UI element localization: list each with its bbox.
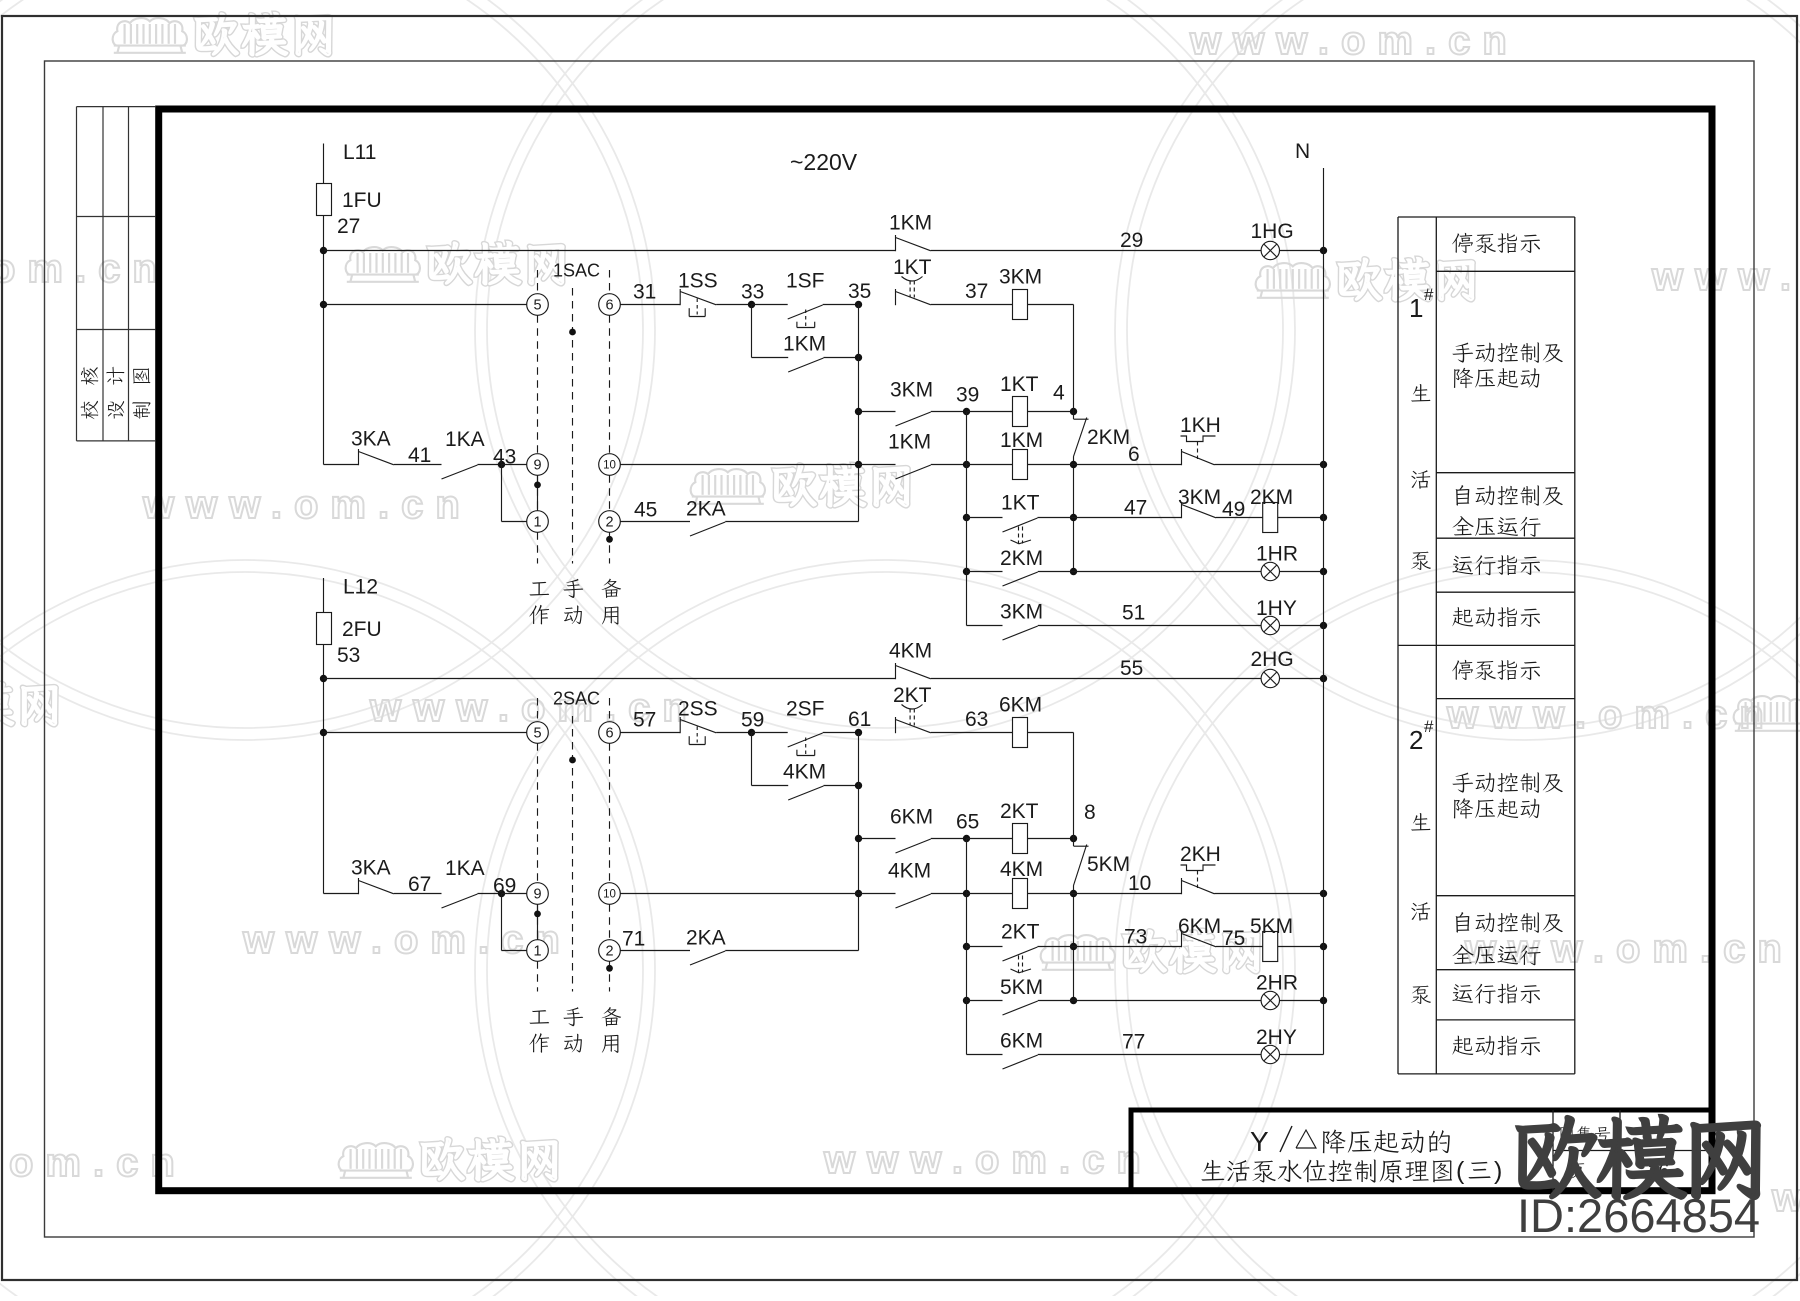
wire 57 — [716, 732, 751, 734]
wire to 4KM contact — [859, 893, 896, 895]
svg-text:67: 67 — [408, 873, 431, 896]
wire vertical to 6KM contact — [967, 1054, 1003, 1056]
svg-text:N: N — [1295, 140, 1310, 163]
svg-text:1KM: 1KM — [783, 333, 826, 356]
wire 2KT to junction — [1038, 946, 1074, 948]
pushbutton 2SS NC stop — [679, 717, 681, 733]
wire vertical to 6KM contact — [859, 838, 896, 840]
svg-text:5KM: 5KM — [1250, 915, 1293, 938]
wire vertical 8 branch down — [1073, 894, 1075, 1001]
svg-text:www.om.cn: www.om.cn — [823, 1138, 1153, 1182]
wire to node 39 — [931, 411, 967, 413]
coil 3KM — [1013, 290, 1028, 320]
selector 1SAC terminal 9 — [527, 454, 549, 476]
wire to coil 1KM — [967, 464, 1013, 466]
contact 2KA NO relay — [690, 951, 725, 965]
wire bus to selector 2SAC contact 5 — [324, 732, 527, 734]
wire 73 — [1074, 946, 1182, 948]
svg-text:1SF: 1SF — [786, 270, 825, 293]
lamp 2HR run indicator — [1261, 991, 1279, 1009]
wire to lamp 2HR — [1038, 1000, 1074, 1002]
wire 65 to coil 2KT — [967, 838, 1013, 840]
wire to 39 vertical — [931, 464, 967, 466]
fuse 2FU — [317, 613, 332, 645]
svg-text:www.om.cn: www.om.cn — [1771, 1176, 1800, 1220]
svg-text:2HG: 2HG — [1251, 648, 1294, 671]
svg-text:2SAC: 2SAC — [553, 689, 600, 709]
svg-text:63: 63 — [965, 708, 988, 731]
svg-text:49: 49 — [1222, 498, 1245, 521]
watermark ID — [1518, 1117, 1600, 1197]
svg-text:31: 31 — [633, 281, 656, 304]
selector 2SAC terminal 5 — [527, 722, 549, 744]
wire vertical to 3KM contact — [967, 625, 1003, 627]
lamp 2HY start indicator — [1261, 1045, 1279, 1063]
wire selector contact 9 to contact 1 — [537, 475, 539, 510]
svg-text:2FU: 2FU — [342, 618, 382, 641]
contact 1KA NO water-level relay — [442, 894, 478, 908]
svg-text:6: 6 — [605, 725, 613, 741]
contact 1KA NO water-level relay — [442, 465, 478, 479]
svg-text:6: 6 — [1128, 443, 1140, 466]
position dot 2SAC line 3 — [606, 965, 613, 972]
svg-text:10: 10 — [603, 460, 616, 472]
wire selector contact 10 to 61 vertical — [620, 893, 858, 895]
wire 51 — [1038, 625, 1261, 627]
svg-text:3KM: 3KM — [1178, 486, 1221, 509]
label position bei-yong (standby) — [602, 1007, 622, 1026]
wire to 4KM hold contact — [752, 785, 789, 787]
selector switch 1SAC position line 3 (dashed) — [609, 270, 611, 294]
junction vertical / lamp 1HR row — [1070, 568, 1077, 575]
wire 2HG to N — [1280, 678, 1324, 680]
contact 3KA NC water-level relay — [358, 878, 360, 894]
svg-text:65: 65 — [956, 811, 979, 834]
svg-text:1SS: 1SS — [678, 270, 718, 293]
lamp 1HG stop indicator — [1261, 241, 1279, 259]
svg-text:1KH: 1KH — [1180, 414, 1221, 437]
junction N bus / coil row — [1320, 461, 1327, 468]
contact 3KA NC water-level relay — [358, 449, 360, 465]
svg-text:2KT: 2KT — [893, 684, 932, 707]
svg-text:2: 2 — [605, 514, 613, 530]
svg-text:2KT: 2KT — [1000, 800, 1039, 823]
svg-text:www.om.cn: www.om.cn — [1446, 693, 1776, 737]
svg-text:4KM: 4KM — [783, 761, 826, 784]
svg-text:3KM: 3KM — [890, 379, 933, 402]
wire 1SAC contact 6 to 1SS — [620, 304, 680, 306]
selector 2SAC terminal 1 — [527, 940, 549, 962]
label position shou-dong (manual) — [563, 1007, 583, 1026]
junction 39 vertical / coil row — [963, 461, 970, 468]
wire 67 — [394, 893, 442, 895]
position dot 2SAC line 1 — [534, 911, 541, 918]
svg-text:1KT: 1KT — [893, 256, 932, 279]
junction 65 vertical / timer contact row — [963, 943, 970, 950]
svg-text:10: 10 — [1128, 872, 1151, 895]
svg-text:1KT: 1KT — [1000, 373, 1039, 396]
svg-text:2KA: 2KA — [686, 498, 726, 521]
svg-text:47: 47 — [1124, 497, 1147, 520]
junction 65 vertical / lamp 2HR row — [963, 997, 970, 1004]
svg-text:57: 57 — [633, 709, 656, 732]
wire bus to selector 1SAC contact 5 — [324, 304, 527, 306]
wire 4KM contact to vertical — [824, 785, 859, 787]
svg-text:29: 29 — [1120, 229, 1143, 252]
contact 1KT NO time-delay opening — [1003, 518, 1038, 532]
selector switch 2SAC position line 1 (dashed) — [537, 698, 539, 722]
svg-text:6KM: 6KM — [1178, 915, 1221, 938]
contact 4KM NO self-hold — [788, 786, 823, 800]
function description table — [1397, 217, 1399, 1074]
wire bus to relay contact 3KA — [324, 893, 359, 895]
coil 2KM contactor — [1263, 503, 1278, 533]
wire 6 — [1074, 464, 1182, 466]
wire coil 4KM to interlock — [1028, 893, 1074, 895]
svg-text:55: 55 — [1120, 657, 1143, 680]
svg-text:6KM: 6KM — [999, 694, 1042, 717]
wire 43 to selector contact 9 — [502, 464, 527, 466]
coil 1KM contactor — [1013, 450, 1028, 480]
lamp 2HG stop indicator — [1261, 669, 1279, 687]
wire 1KM contact to vertical — [824, 357, 859, 359]
contact 2KA NO relay — [690, 522, 725, 536]
junction interlock / coil row — [1070, 890, 1077, 897]
wire 75 — [1216, 946, 1263, 948]
junction interlock / coil row — [1070, 461, 1077, 468]
svg-text:6KM: 6KM — [1000, 1030, 1043, 1053]
position dot 2SAC line 2 — [569, 757, 576, 764]
wire 1KH to N bus — [1215, 464, 1324, 466]
selector 1SAC terminal 6 — [599, 294, 621, 316]
wire to 1KM contact — [859, 464, 896, 466]
svg-text:2HY: 2HY — [1256, 1026, 1297, 1049]
lamp 1HR run indicator — [1261, 562, 1279, 580]
junction N bus / lamp 1HR row — [1320, 568, 1327, 575]
svg-text:2SF: 2SF — [786, 698, 825, 721]
contact 2KT NC time-delay — [895, 717, 897, 733]
wire vertical node 61 — [858, 733, 860, 951]
title block — [1131, 1110, 1712, 1191]
svg-text:1KT: 1KT — [1001, 492, 1040, 515]
junction vertical / row 47 — [1070, 514, 1077, 521]
wire vertical 4 branch down — [1073, 465, 1075, 572]
junction 35 vertical / row 39 — [855, 408, 862, 415]
wire 6KM coil output down to node 8 — [1073, 733, 1075, 839]
svg-text:1KM: 1KM — [1000, 429, 1043, 452]
wire 1KT coil to node 4 — [1028, 411, 1074, 413]
junction 65 vertical / coil row — [963, 890, 970, 897]
svg-text:75: 75 — [1222, 927, 1245, 950]
contact 4KM NO auxiliary (coil row) — [896, 894, 931, 908]
junction N bus / coil row — [1320, 890, 1327, 897]
svg-text:2KM: 2KM — [1087, 426, 1130, 449]
wire 65 vertical lower — [966, 947, 968, 1055]
svg-text:2HR: 2HR — [1256, 972, 1298, 995]
wire node 59 down to 4KM hold contact — [751, 733, 753, 786]
svg-text:#: # — [1424, 717, 1434, 736]
svg-text:1HG: 1HG — [1251, 220, 1294, 243]
selector 1SAC terminal 1 — [527, 511, 549, 533]
wire 41 — [394, 464, 442, 466]
junction N bus / lamp 2HR row — [1320, 997, 1327, 1004]
contact 1KM NO self-hold — [788, 358, 823, 372]
svg-text:77: 77 — [1122, 1031, 1145, 1054]
wire node 33 down to 1KM hold contact — [751, 305, 753, 358]
wire lamp 1HY to N bus — [1280, 625, 1324, 627]
wire 37 — [931, 304, 1013, 306]
contact 2KM NC interlock (vertical) — [1073, 412, 1075, 420]
junction 61 vertical / coil row — [855, 890, 862, 897]
svg-text:5KM: 5KM — [1000, 976, 1043, 999]
wire 31 — [716, 304, 751, 306]
wire 55 — [931, 678, 1261, 680]
wire selector contact 2 to 2KA — [620, 521, 690, 523]
svg-text:1KM: 1KM — [888, 431, 931, 454]
svg-text:www.om.cn: www.om.cn — [0, 247, 169, 291]
contact 6KM NC auxiliary — [1181, 931, 1183, 947]
svg-text:3KA: 3KA — [351, 428, 391, 451]
junction 39 vertical / timer contact row — [963, 514, 970, 521]
left approval strip (xiao-he / she-ji / zhi-tu) — [76, 107, 78, 441]
svg-text:1KA: 1KA — [445, 857, 485, 880]
lamp 1HY start indicator — [1261, 616, 1279, 634]
wire to coil 4KM — [967, 893, 1013, 895]
svg-text:L11: L11 — [343, 141, 376, 164]
svg-text:2SS: 2SS — [678, 698, 718, 721]
junction vertical / lamp 2HR row — [1070, 997, 1077, 1004]
selector 1SAC terminal 10 — [599, 454, 621, 476]
wire 2KA to 35 vertical — [725, 521, 858, 523]
selector switch 2SAC position line 3 (dashed) — [609, 698, 611, 722]
wire coil 2KM to N bus — [1278, 517, 1324, 519]
junction N bus / lamp 1HY row — [1320, 622, 1327, 629]
wire lamp 2HR to N bus — [1280, 1000, 1324, 1002]
contact 2KM NO auxiliary (lamp 1HR row) — [1003, 572, 1038, 586]
contact 5KM NO auxiliary (lamp 2HR row) — [1003, 1001, 1038, 1015]
wire vertical to 1KT contact — [967, 517, 1003, 519]
junction 61 vertical / row 65 — [855, 835, 862, 842]
svg-text:5KM: 5KM — [1087, 853, 1130, 876]
wire 2SF to node 61 — [823, 732, 859, 734]
coil 6KM — [1013, 718, 1028, 748]
node 39 — [963, 408, 970, 415]
svg-text:4KM: 4KM — [889, 640, 932, 663]
svg-text:www.om.cn: www.om.cn — [1464, 927, 1794, 971]
wire 53 to 4KM — [324, 678, 896, 680]
wire vertical to 2KT contact — [967, 946, 1003, 948]
svg-text:5: 5 — [533, 725, 541, 741]
wire 63 — [931, 732, 1013, 734]
wire 1SF to node 35 — [823, 304, 859, 306]
coil 4KM contactor — [1013, 879, 1028, 909]
svg-text:1: 1 — [533, 514, 541, 530]
svg-text:9: 9 — [533, 457, 541, 473]
svg-text:6KM: 6KM — [890, 806, 933, 829]
svg-text:2KH: 2KH — [1180, 843, 1221, 866]
position dot 1SAC line 1 — [534, 482, 541, 489]
pushbutton 2SF NO start — [788, 733, 823, 747]
svg-text:33: 33 — [741, 281, 764, 304]
wire 65 vertical — [966, 839, 968, 947]
junction N bus / 2HG row — [1320, 675, 1327, 682]
svg-text:3KM: 3KM — [999, 266, 1042, 289]
svg-text:10: 10 — [603, 889, 616, 901]
junction 35 vertical / coil row — [855, 461, 862, 468]
wire 1KT to junction — [1038, 517, 1074, 519]
svg-text:#: # — [1424, 285, 1434, 304]
svg-text:61: 61 — [848, 708, 871, 731]
wire 2SAC contact 6 to 2SS — [620, 732, 680, 734]
selector switch 1SAC position line 2 (dashed) — [572, 288, 574, 564]
node 4 — [1070, 408, 1077, 415]
label position bei-yong (standby) — [602, 579, 622, 598]
svg-text:43: 43 — [493, 446, 516, 469]
coil 2KT time relay — [1013, 824, 1028, 854]
svg-text:9: 9 — [533, 886, 541, 902]
wire vertical to 2KM contact — [967, 571, 1003, 573]
contact 3KM NO auxiliary (timer row) — [896, 412, 931, 426]
wire to node 43 — [478, 464, 502, 466]
node 69 — [498, 890, 505, 897]
wire to node 69 — [478, 893, 502, 895]
wire 1HG to N — [1280, 250, 1324, 252]
wire lamp 2HY to N bus — [1280, 1054, 1324, 1056]
svg-text:1: 1 — [1409, 293, 1423, 323]
contact 1KM NO auxiliary (lamp 1HG row) — [895, 235, 897, 251]
wire 33 to 1SF — [752, 304, 788, 306]
node 35 — [855, 301, 862, 308]
node 61 — [855, 729, 862, 736]
svg-text:45: 45 — [634, 499, 657, 522]
wire lamp 1HR to N bus — [1280, 571, 1324, 573]
position dot 1SAC line 3 — [606, 536, 613, 543]
fuse 1FU — [317, 184, 332, 216]
junction vertical / row 73 — [1070, 943, 1077, 950]
wire 77 — [1038, 1054, 1261, 1056]
node 33 — [748, 301, 755, 308]
svg-text:2: 2 — [1409, 725, 1423, 755]
wire 39 vertical lower — [966, 518, 968, 626]
svg-text:3KM: 3KM — [1000, 601, 1043, 624]
pushbutton 1SF NO start — [788, 305, 823, 319]
wire node 69 down to selector contact 1 — [501, 894, 503, 951]
wire 47 — [1074, 517, 1182, 519]
svg-text:www.om.cn: www.om.cn — [242, 918, 572, 962]
wire selector contact 9 to contact 1 — [537, 904, 539, 939]
svg-text:1: 1 — [533, 943, 541, 959]
wire 2KA to 61 vertical — [725, 950, 858, 952]
svg-text:35: 35 — [848, 280, 871, 303]
svg-text:37: 37 — [965, 280, 988, 303]
svg-text:5: 5 — [533, 297, 541, 313]
svg-text:39: 39 — [956, 384, 979, 407]
pushbutton 1SS NC stop — [679, 289, 681, 305]
svg-text:69: 69 — [493, 875, 516, 898]
wire 2KH to N bus — [1215, 893, 1324, 895]
svg-text:2: 2 — [605, 943, 613, 959]
svg-text:53: 53 — [337, 644, 360, 667]
wire 3KM coil output down to node 4 — [1073, 305, 1075, 412]
contact 1KM NO auxiliary (coil row) — [896, 465, 931, 479]
wire 39 to coil 1KT — [967, 411, 1013, 413]
selector switch 1SAC position line 1 (dashed) — [537, 270, 539, 294]
selector 2SAC terminal 2 — [599, 940, 621, 962]
wire selector contact 2 to 2KA — [620, 950, 690, 952]
svg-text:Y: Y — [1250, 1126, 1269, 1157]
wire 27 to 1KM — [324, 250, 896, 252]
wire vertical to 3KM contact — [859, 411, 896, 413]
wire node 43 down to selector contact 1 — [501, 465, 503, 522]
contact 2KT NO time-delay opening — [1003, 947, 1038, 961]
contact 5KM NC interlock (vertical) — [1073, 839, 1075, 847]
junction N bus / 1HG row — [1320, 247, 1327, 254]
contact 1KT NC time-delay — [895, 289, 897, 305]
wire bus L11 — [323, 144, 325, 465]
svg-text:3KA: 3KA — [351, 857, 391, 880]
wire 3KM coil to vertical — [1028, 304, 1074, 306]
svg-text:2KA: 2KA — [686, 927, 726, 950]
coil 1KT time relay — [1013, 397, 1028, 427]
wire to lamp 1HR — [1038, 571, 1074, 573]
junction bus L12 / wire 57 — [320, 729, 327, 736]
selector 2SAC terminal 10 — [599, 883, 621, 905]
svg-text:1HR: 1HR — [1256, 543, 1298, 566]
wire 69 to selector contact 9 — [502, 893, 527, 895]
junction 39 vertical / lamp 1HR row — [963, 568, 970, 575]
junction N bus / 73 row — [1320, 943, 1327, 950]
coil 5KM contactor — [1263, 932, 1278, 962]
svg-text:59: 59 — [741, 709, 764, 732]
wire selector contact 10 to 35 vertical — [620, 464, 858, 466]
thermal relay contact 2KH NC — [1181, 878, 1183, 894]
selector 2SAC terminal 9 — [527, 883, 549, 905]
wire bus L12 — [323, 578, 325, 894]
wire coil 1KM to interlock — [1028, 464, 1074, 466]
svg-text:4KM: 4KM — [1000, 858, 1043, 881]
svg-text:www.om.cn: www.om.cn — [1189, 19, 1519, 63]
label position gong-zuo (duty) — [530, 582, 550, 596]
junction hold row / 35 vertical — [855, 354, 862, 361]
wire 29 — [931, 250, 1261, 252]
node 8 — [1070, 835, 1077, 842]
wire to 1KM hold contact — [752, 357, 789, 359]
svg-text:27: 27 — [337, 215, 360, 238]
junction N bus / 47 row — [1320, 514, 1327, 521]
contact 6KM NO auxiliary (timer row) — [896, 839, 931, 853]
svg-text:1HY: 1HY — [1256, 597, 1297, 620]
wire 49 — [1216, 517, 1263, 519]
svg-text:73: 73 — [1124, 926, 1147, 949]
svg-text:1KA: 1KA — [445, 428, 485, 451]
node 43 — [498, 461, 505, 468]
svg-text:(: ( — [1456, 1157, 1465, 1185]
contact 3KM NO auxiliary (lamp 1HY row) — [1003, 626, 1038, 640]
label position gong-zuo (duty) — [530, 1010, 550, 1024]
svg-text:2KM: 2KM — [1000, 547, 1043, 570]
svg-text:8: 8 — [1084, 801, 1096, 824]
wire 39 vertical — [966, 412, 968, 518]
wire 59 to 2SF — [752, 732, 788, 734]
svg-text:L12: L12 — [343, 576, 378, 599]
node 65 — [963, 835, 970, 842]
wire coil 5KM to N bus — [1278, 946, 1324, 948]
svg-text:www.om.cn: www.om.cn — [142, 483, 472, 527]
svg-text:2KT: 2KT — [1001, 921, 1040, 944]
svg-text:ID:2664854: ID:2664854 — [1517, 1189, 1760, 1242]
svg-text:www.om.cn: www.om.cn — [1651, 255, 1800, 299]
wire 6KM coil to vertical — [1028, 732, 1074, 734]
